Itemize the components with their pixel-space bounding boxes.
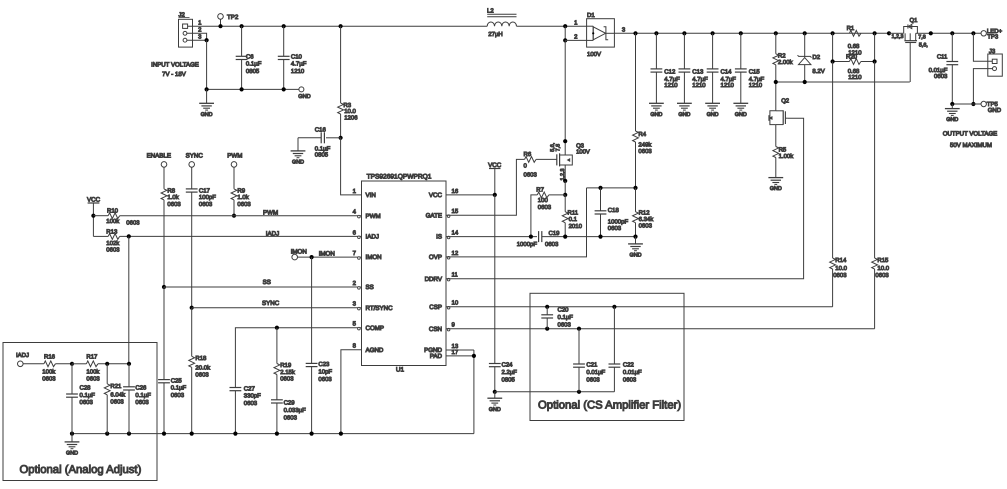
resistor R13 — [93, 228, 120, 253]
svg-text:0603: 0603 — [80, 399, 94, 406]
svg-text:R6: R6 — [524, 151, 532, 158]
ground C13 — [677, 103, 692, 118]
svg-text:OVP: OVP — [429, 254, 442, 261]
svg-text:RT/SYNC: RT/SYNC — [366, 305, 394, 312]
svg-text:R12: R12 — [639, 210, 651, 217]
svg-text:Optional (Analog Adjust): Optional (Analog Adjust) — [20, 464, 142, 476]
svg-text:C17: C17 — [199, 188, 211, 195]
capacitor C23 — [306, 361, 333, 433]
svg-text:SYNC: SYNC — [262, 300, 280, 307]
svg-text:100pF: 100pF — [199, 194, 216, 201]
capacitor C26 — [123, 362, 151, 434]
svg-text:GND: GND — [292, 160, 304, 166]
svg-text:R15: R15 — [877, 257, 889, 264]
svg-text:0.1: 0.1 — [569, 216, 578, 223]
svg-text:TP3: TP3 — [987, 33, 999, 40]
svg-text:DDRV: DDRV — [425, 276, 443, 283]
svg-text:7V - 18V: 7V - 18V — [162, 71, 187, 78]
svg-text:0.1µF: 0.1µF — [558, 314, 574, 321]
box CS amplifier filter — [530, 293, 684, 420]
svg-text:R9: R9 — [237, 188, 245, 195]
svg-text:GND: GND — [66, 451, 78, 457]
capacitor C17 — [186, 188, 216, 308]
svg-text:Optional (CS Amplifier Filter): Optional (CS Amplifier Filter) — [538, 399, 681, 411]
terminal ENABLE — [147, 153, 171, 189]
resistor R2 — [773, 33, 794, 82]
svg-text:C16: C16 — [315, 127, 327, 134]
svg-text:R8: R8 — [167, 188, 175, 195]
svg-text:C26: C26 — [135, 384, 147, 391]
svg-text:1.0k: 1.0k — [167, 194, 179, 201]
box analog adjust — [3, 343, 157, 481]
terminal IMON — [291, 249, 307, 260]
svg-text:C23: C23 — [318, 361, 330, 368]
svg-text:PWM: PWM — [227, 153, 242, 160]
svg-text:C14: C14 — [721, 68, 733, 75]
svg-text:GATE: GATE — [426, 212, 442, 219]
svg-text:249k: 249k — [638, 142, 652, 149]
connector J3 — [988, 48, 1003, 76]
inductor L2 — [487, 8, 517, 38]
wire OVP node — [587, 186, 638, 190]
svg-text:IADJ: IADJ — [366, 234, 379, 241]
svg-text:17: 17 — [452, 349, 459, 356]
capacitor C24 — [489, 195, 517, 392]
wire D1 pin2 — [565, 34, 586, 41]
svg-text:PWM: PWM — [366, 213, 381, 220]
svg-text:GND: GND — [489, 407, 501, 413]
svg-text:C15: C15 — [749, 68, 761, 75]
label input voltage — [151, 62, 199, 79]
svg-text:0.1µF: 0.1µF — [315, 145, 331, 152]
svg-text:1000pF: 1000pF — [517, 241, 538, 248]
svg-text:50V MAXIMUM: 50V MAXIMUM — [950, 142, 992, 149]
wire CSP net — [446, 305, 833, 309]
svg-text:GND: GND — [707, 112, 719, 118]
wire J3 pin2 — [971, 69, 992, 107]
svg-text:C21: C21 — [586, 362, 598, 369]
svg-text:GND: GND — [946, 117, 958, 123]
svg-text:0805: 0805 — [246, 68, 260, 75]
svg-text:0603: 0603 — [195, 372, 209, 379]
wire J2 pin2/3 to gnd drop — [187, 33, 209, 89]
svg-text:100V: 100V — [587, 51, 601, 58]
svg-text:SS: SS — [366, 284, 374, 291]
svg-text:0603: 0603 — [171, 392, 185, 399]
svg-text:0.01µF: 0.01µF — [623, 369, 642, 376]
wire VCC pin16 — [446, 193, 497, 197]
svg-text:R20: R20 — [846, 54, 858, 61]
resistor R1 — [847, 25, 863, 56]
svg-text:R16: R16 — [44, 353, 56, 360]
svg-text:PWM: PWM — [263, 209, 278, 216]
svg-text:IADJ: IADJ — [16, 352, 29, 359]
resistor R6 — [524, 151, 557, 178]
svg-text:1.00k: 1.00k — [779, 153, 795, 160]
svg-text:1206: 1206 — [344, 115, 358, 122]
diode D1 — [587, 12, 615, 58]
svg-text:C20: C20 — [558, 307, 570, 314]
svg-text:1210: 1210 — [848, 74, 862, 81]
resistor R20 — [831, 33, 877, 81]
wire OVP net — [446, 188, 587, 257]
svg-text:0.033µF: 0.033µF — [284, 407, 306, 414]
svg-text:0603: 0603 — [237, 201, 251, 208]
wire SS net — [162, 279, 362, 289]
zener D2 — [798, 33, 825, 82]
svg-text:2.15k: 2.15k — [280, 369, 296, 376]
svg-text:0.68: 0.68 — [848, 68, 860, 75]
op-amp U1 TPS92691QPWPRQ1 — [353, 173, 459, 373]
ground C15 — [733, 103, 748, 118]
resistor R14 — [830, 62, 848, 307]
wire main input rail — [188, 25, 488, 27]
svg-text:R11: R11 — [568, 210, 579, 217]
svg-text:0603: 0603 — [280, 375, 294, 382]
svg-text:8.2V: 8.2V — [812, 68, 824, 75]
svg-text:R21: R21 — [110, 383, 122, 390]
wire COMP net — [235, 326, 361, 388]
svg-text:10.0: 10.0 — [344, 108, 356, 115]
ground C24 — [487, 390, 502, 413]
capacitor C15 — [735, 33, 765, 103]
svg-text:0.1µF: 0.1µF — [246, 61, 262, 68]
capacitor C19 — [517, 230, 638, 248]
wire VIN — [341, 138, 362, 195]
svg-text:VIN: VIN — [366, 192, 376, 199]
svg-text:R2: R2 — [778, 53, 786, 60]
svg-text:OUTPUT VOLTAGE: OUTPUT VOLTAGE — [943, 130, 998, 137]
svg-text:1210: 1210 — [664, 82, 678, 89]
svg-text:1210: 1210 — [291, 68, 305, 75]
svg-text:C28: C28 — [80, 384, 92, 391]
resistor R15 — [872, 62, 890, 329]
svg-text:1.0k: 1.0k — [237, 194, 249, 201]
svg-text:C13: C13 — [692, 68, 704, 75]
svg-text:1210: 1210 — [721, 82, 735, 89]
svg-text:0603: 0603 — [558, 321, 572, 328]
svg-text:0603: 0603 — [110, 398, 124, 405]
terminal IADJ — [16, 352, 44, 367]
resistor R8 — [161, 188, 181, 287]
wire AGND — [341, 350, 362, 434]
terminal PWM — [227, 153, 242, 189]
svg-text:10pF: 10pF — [318, 369, 332, 376]
svg-text:U1: U1 — [396, 366, 405, 373]
svg-text:2010: 2010 — [569, 223, 583, 230]
svg-text:0603: 0603 — [244, 400, 258, 407]
svg-text:1210: 1210 — [749, 82, 763, 89]
svg-text:R18: R18 — [195, 355, 207, 362]
svg-text:C25: C25 — [171, 377, 183, 384]
svg-text:D1: D1 — [587, 12, 595, 19]
wire PGND PAD — [446, 350, 476, 434]
svg-text:COMP: COMP — [366, 325, 385, 332]
resistor R19 — [274, 328, 296, 383]
power VCC right — [488, 162, 502, 195]
svg-text:TP5: TP5 — [987, 101, 999, 108]
wire J3 pin1 — [973, 33, 992, 61]
resistor R11 — [562, 195, 582, 237]
svg-text:4.7µF: 4.7µF — [291, 61, 307, 68]
svg-text:1000pF: 1000pF — [608, 218, 629, 225]
svg-text:4.7µF: 4.7µF — [692, 76, 708, 83]
svg-text:15: 15 — [452, 208, 459, 215]
svg-text:SYNC: SYNC — [186, 153, 204, 160]
svg-text:R1: R1 — [847, 25, 855, 32]
svg-text:C18: C18 — [608, 207, 620, 214]
capacitor C12 — [651, 33, 681, 103]
svg-text:16: 16 — [452, 188, 459, 195]
resistor R9 — [231, 188, 251, 218]
ground C16 — [291, 138, 306, 166]
connector J2 — [179, 12, 203, 48]
resistor R17 — [70, 353, 129, 382]
svg-text:0603: 0603 — [126, 219, 140, 226]
svg-text:PAD: PAD — [430, 353, 443, 360]
svg-text:R17: R17 — [86, 353, 98, 360]
wire input gnd rail — [207, 87, 299, 91]
resistor R10 — [91, 208, 140, 227]
transistor Q2 — [769, 98, 789, 125]
wire TP5 line — [950, 102, 981, 106]
wire Q1 gate line — [774, 80, 910, 84]
svg-text:100V: 100V — [576, 149, 590, 156]
svg-text:Q2: Q2 — [781, 98, 789, 105]
ground C14 — [705, 103, 720, 118]
svg-text:IADJ: IADJ — [266, 230, 279, 237]
capacitor C28 — [66, 364, 95, 434]
capacitor C10 — [278, 24, 307, 89]
wire IMON net — [298, 251, 362, 260]
test point TP2 — [218, 14, 239, 29]
svg-text:0603: 0603 — [623, 376, 637, 383]
svg-text:0.1µF: 0.1µF — [171, 385, 187, 392]
svg-text:1,2,3: 1,2,3 — [892, 34, 904, 40]
wire bottom gnd rail — [70, 432, 474, 436]
svg-text:0603: 0603 — [545, 241, 559, 248]
svg-text:GND: GND — [650, 112, 662, 118]
ground C11 — [945, 104, 960, 123]
svg-text:R5: R5 — [779, 147, 787, 154]
svg-text:GND: GND — [735, 112, 747, 118]
wire Q2 drain — [775, 82, 777, 111]
svg-text:C12: C12 — [664, 68, 676, 75]
capacitor C14 — [707, 33, 737, 103]
svg-text:0603: 0603 — [167, 201, 181, 208]
svg-text:100: 100 — [538, 197, 549, 204]
svg-text:INPUT VOLTAGE: INPUT VOLTAGE — [151, 62, 199, 69]
svg-text:R19: R19 — [280, 362, 292, 369]
resistor R3 — [338, 24, 359, 138]
svg-text:R14: R14 — [835, 257, 847, 264]
ground input — [199, 87, 214, 118]
svg-text:Q1: Q1 — [910, 17, 918, 24]
wire IADJ net — [120, 230, 362, 238]
terminal GND input — [298, 87, 310, 100]
svg-text:102k: 102k — [106, 240, 120, 247]
capacitor C18 — [595, 188, 629, 237]
svg-text:0603: 0603 — [318, 376, 332, 383]
svg-text:0603: 0603 — [833, 272, 847, 279]
svg-text:IMON: IMON — [319, 251, 335, 258]
svg-text:CSN: CSN — [429, 326, 442, 333]
svg-text:0603: 0603 — [638, 148, 652, 155]
svg-text:0603: 0603 — [586, 376, 600, 383]
svg-text:6.34k: 6.34k — [639, 216, 655, 223]
capacitor C16 — [298, 127, 343, 159]
svg-text:R7: R7 — [536, 187, 544, 194]
svg-text:0603: 0603 — [284, 415, 298, 422]
svg-text:R13: R13 — [106, 228, 118, 235]
wire L2 to D1 — [517, 19, 587, 28]
svg-text:10.0: 10.0 — [835, 265, 847, 272]
wire C24 gnd to CS filter — [495, 390, 615, 394]
svg-text:100k: 100k — [86, 369, 100, 376]
svg-text:27µH: 27µH — [488, 31, 502, 38]
resistor R21 — [104, 362, 126, 434]
svg-text:2.00k: 2.00k — [778, 59, 794, 66]
resistor R4 — [633, 33, 653, 188]
svg-text:0.68: 0.68 — [848, 43, 860, 50]
svg-text:6.04k: 6.04k — [110, 391, 126, 398]
resistor R7 — [531, 187, 565, 237]
ground R5 — [768, 178, 783, 193]
svg-text:12: 12 — [452, 250, 459, 257]
svg-text:SS: SS — [263, 279, 271, 286]
label output voltage — [943, 130, 998, 149]
svg-text:4.7µF: 4.7µF — [749, 76, 765, 83]
svg-text:4.7µF: 4.7µF — [664, 76, 680, 83]
svg-text:0603: 0603 — [86, 376, 100, 383]
svg-text:10.0: 10.0 — [877, 265, 889, 272]
test point TP3 — [981, 28, 1003, 41]
svg-text:20.0k: 20.0k — [195, 364, 211, 371]
svg-text:7,8: 7,8 — [555, 144, 561, 152]
resistor R18 — [189, 308, 211, 434]
svg-text:VCC: VCC — [429, 192, 443, 199]
svg-text:11: 11 — [452, 272, 459, 279]
svg-text:R3: R3 — [343, 102, 351, 109]
svg-text:0805: 0805 — [315, 152, 329, 159]
svg-text:GND: GND — [770, 186, 782, 192]
resistor R5 — [773, 125, 794, 178]
svg-text:100k: 100k — [42, 369, 56, 376]
svg-text:GND: GND — [678, 112, 690, 118]
test point TP5 — [981, 101, 1002, 114]
svg-text:Q3: Q3 — [576, 142, 585, 149]
svg-text:C11: C11 — [937, 53, 948, 60]
svg-text:C24: C24 — [502, 362, 514, 369]
svg-text:C27: C27 — [244, 385, 256, 392]
svg-text:C6: C6 — [246, 53, 254, 60]
svg-text:4.7µF: 4.7µF — [721, 76, 737, 83]
wire IADJ drop — [128, 236, 130, 363]
svg-text:TP2: TP2 — [227, 14, 239, 21]
svg-text:100k: 100k — [106, 218, 120, 225]
svg-text:0603: 0603 — [42, 376, 56, 383]
transistor Q1 — [889, 17, 931, 82]
wire SW drop — [563, 26, 567, 155]
wire PWM net — [120, 209, 362, 216]
svg-text:14: 14 — [452, 230, 459, 237]
ground IS — [628, 237, 643, 259]
svg-text:GND: GND — [988, 107, 1002, 114]
ground C12 — [649, 103, 664, 118]
svg-text:0603: 0603 — [106, 246, 120, 253]
svg-text:0603: 0603 — [934, 73, 948, 80]
capacitor C29 — [271, 375, 306, 434]
capacitor C21 — [573, 329, 605, 392]
svg-text:GND: GND — [201, 112, 213, 118]
svg-text:IMON: IMON — [366, 254, 382, 261]
node Q3 source — [563, 179, 567, 197]
terminal SYNC — [186, 153, 204, 189]
capacitor C6 — [236, 24, 262, 89]
svg-text:5,6,: 5,6, — [919, 43, 928, 49]
ground bottom rail — [65, 434, 80, 457]
svg-text:C10: C10 — [291, 53, 303, 60]
svg-text:R4: R4 — [638, 131, 646, 138]
svg-text:2.2µF: 2.2µF — [502, 369, 518, 376]
capacitor C25 — [158, 287, 186, 434]
svg-text:0603: 0603 — [199, 201, 213, 208]
svg-text:0603: 0603 — [538, 204, 552, 211]
capacitor C13 — [679, 33, 709, 103]
svg-text:IS: IS — [436, 234, 442, 241]
svg-text:0.1µF: 0.1µF — [135, 392, 151, 399]
svg-text:0603: 0603 — [639, 223, 653, 230]
svg-text:CSP: CSP — [429, 304, 442, 311]
wire IS net — [446, 235, 537, 239]
svg-text:0603: 0603 — [875, 272, 889, 279]
power VCC left — [87, 197, 101, 237]
svg-text:ENABLE: ENABLE — [147, 153, 171, 160]
svg-text:R10: R10 — [107, 208, 119, 215]
capacitor C27 — [230, 385, 262, 433]
svg-text:AGND: AGND — [366, 347, 384, 354]
svg-text:C22: C22 — [623, 362, 635, 369]
wire GATE net — [446, 159, 525, 215]
svg-text:0.01µF: 0.01µF — [586, 369, 605, 376]
capacitor C22 — [609, 307, 643, 392]
svg-text:0603: 0603 — [135, 399, 149, 406]
capacitor C11 — [929, 33, 959, 104]
svg-text:10: 10 — [452, 300, 459, 307]
svg-text:C19: C19 — [549, 230, 561, 237]
capacitor C20 — [541, 307, 573, 329]
svg-text:0603: 0603 — [608, 225, 622, 232]
resistor R16 — [42, 353, 72, 382]
resistor R12 — [633, 188, 655, 237]
svg-text:C29: C29 — [284, 400, 296, 407]
transistor Q3 — [550, 142, 590, 181]
svg-text:0603: 0603 — [524, 171, 538, 178]
svg-text:GND: GND — [298, 94, 310, 100]
wire output rail — [614, 27, 891, 36]
svg-text:0.1µF: 0.1µF — [80, 392, 96, 399]
wire SYNC net — [190, 300, 362, 310]
svg-text:0805: 0805 — [502, 376, 516, 383]
svg-text:1210: 1210 — [692, 82, 706, 89]
svg-text:7,8: 7,8 — [918, 34, 926, 40]
wire DDRV net — [446, 118, 804, 279]
svg-text:D2: D2 — [812, 54, 820, 61]
wire Q1 to output — [929, 31, 981, 35]
svg-text:1,2,3: 1,2,3 — [560, 169, 566, 181]
wire IMON drop — [311, 257, 313, 363]
svg-text:L2: L2 — [487, 8, 494, 15]
